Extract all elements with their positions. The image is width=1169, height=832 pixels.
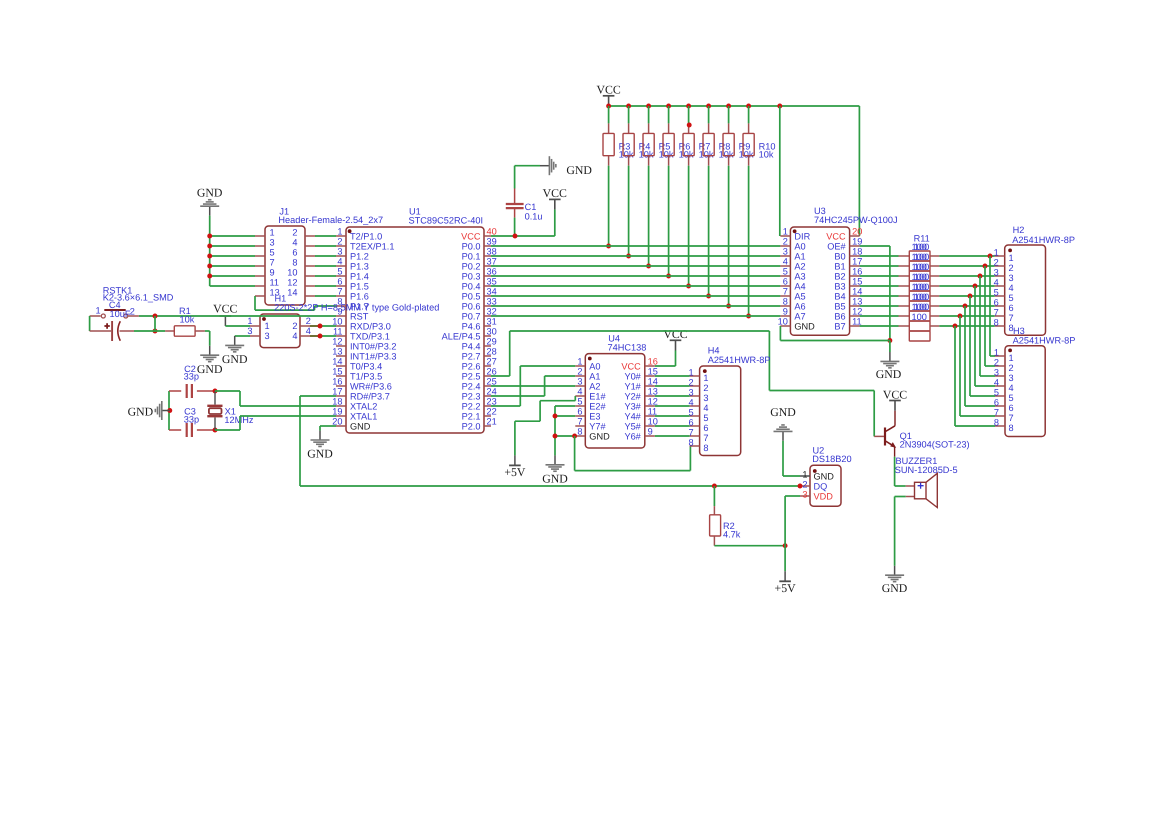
svg-text:P2.7: P2.7 [462,351,481,361]
svg-text:11: 11 [270,278,280,288]
svg-text:B3: B3 [834,281,845,291]
svg-text:A1: A1 [794,251,805,261]
svg-text:8: 8 [783,297,788,307]
svg-text:10k: 10k [739,149,754,159]
svg-text:XTAL1: XTAL1 [350,411,377,421]
svg-text:P0.4: P0.4 [462,281,481,291]
svg-text:13: 13 [332,347,342,357]
svg-text:10k: 10k [659,149,674,159]
svg-text:2: 2 [577,367,582,377]
svg-text:12: 12 [332,337,342,347]
svg-text:11: 11 [333,327,343,337]
svg-text:14: 14 [852,287,862,297]
svg-text:RD#/P3.7: RD#/P3.7 [350,391,390,401]
svg-text:10k: 10k [180,315,195,325]
svg-text:3: 3 [994,268,999,278]
svg-text:H4: H4 [708,346,720,356]
svg-text:12: 12 [287,278,297,288]
svg-text:GND: GND [128,405,154,419]
svg-text:P4.4: P4.4 [462,341,481,351]
svg-text:5: 5 [577,397,582,407]
svg-text:5: 5 [994,288,999,298]
svg-text:Y6#: Y6# [624,431,641,441]
svg-text:RXD/P3.0: RXD/P3.0 [350,321,391,331]
svg-text:VCC: VCC [596,83,620,97]
svg-text:26: 26 [487,367,497,377]
svg-text:25: 25 [487,377,497,387]
svg-text:SUN-12085D-5: SUN-12085D-5 [895,465,958,475]
svg-text:37: 37 [487,257,497,267]
svg-text:10k: 10k [719,149,734,159]
svg-text:VCC: VCC [663,327,687,341]
svg-text:1: 1 [337,227,342,237]
svg-text:18: 18 [852,247,862,257]
svg-text:A1: A1 [589,371,600,381]
svg-text:8: 8 [688,438,693,448]
svg-text:P1.2: P1.2 [350,251,369,261]
svg-text:2: 2 [994,258,999,268]
svg-text:14: 14 [332,357,342,367]
svg-text:VCC: VCC [461,231,481,241]
svg-text:9: 9 [783,307,788,317]
svg-text:Y5#: Y5# [624,421,641,431]
svg-text:+5V: +5V [775,581,797,595]
svg-text:T2EX/P1.1: T2EX/P1.1 [350,241,394,251]
svg-text:Y2#: Y2# [624,391,641,401]
svg-text:A7: A7 [794,311,805,321]
svg-text:P2.0: P2.0 [462,421,481,431]
svg-text:10k: 10k [759,149,774,159]
svg-text:31: 31 [487,317,497,327]
svg-text:6: 6 [703,423,708,433]
svg-text:Y3#: Y3# [624,401,641,411]
svg-text:3: 3 [337,247,342,257]
svg-text:1: 1 [1009,353,1014,363]
svg-text:5: 5 [1009,393,1014,403]
svg-text:A0: A0 [794,241,805,251]
svg-text:16: 16 [332,377,342,387]
svg-text:33: 33 [487,297,497,307]
svg-text:3: 3 [994,368,999,378]
svg-text:100: 100 [914,252,929,262]
svg-text:33p: 33p [184,414,199,424]
svg-text:100: 100 [912,312,927,322]
svg-text:GND: GND [307,447,333,461]
svg-text:39: 39 [487,237,497,247]
svg-text:7: 7 [1009,313,1014,323]
svg-text:7: 7 [994,308,999,318]
svg-text:3: 3 [270,238,275,248]
svg-text:7: 7 [994,408,999,418]
svg-text:22: 22 [487,407,497,417]
svg-text:100: 100 [914,272,929,282]
svg-text:8: 8 [1009,423,1014,433]
svg-text:A2: A2 [589,381,600,391]
svg-text:2N3904(SOT-23): 2N3904(SOT-23) [900,440,970,450]
svg-text:1: 1 [994,248,999,258]
svg-text:P0.5: P0.5 [462,291,481,301]
svg-text:TXD/P3.1: TXD/P3.1 [350,331,390,341]
svg-text:34: 34 [487,287,497,297]
svg-text:10: 10 [778,317,788,327]
svg-text:P0.0: P0.0 [462,241,481,251]
svg-text:GND: GND [814,471,835,481]
svg-text:6: 6 [337,277,342,287]
svg-text:GND: GND [350,421,371,431]
svg-text:E1#: E1# [589,391,606,401]
svg-text:6: 6 [577,407,582,417]
svg-text:1: 1 [247,316,252,326]
svg-text:10k: 10k [679,149,694,159]
svg-text:3: 3 [783,247,788,257]
svg-text:GND: GND [589,431,610,441]
svg-text:6: 6 [292,248,297,258]
svg-text:6: 6 [1009,403,1014,413]
svg-text:10k: 10k [639,149,654,159]
svg-text:9: 9 [270,268,275,278]
svg-text:1: 1 [265,321,270,331]
svg-text:11: 11 [852,317,862,327]
svg-text:A2541HWR-8P: A2541HWR-8P [1012,235,1075,245]
svg-text:B2: B2 [834,271,845,281]
svg-text:10: 10 [287,268,297,278]
svg-text:8: 8 [994,318,999,328]
svg-text:100: 100 [914,302,929,312]
svg-text:P2.4: P2.4 [462,381,481,391]
svg-text:GND: GND [542,471,568,485]
svg-text:13: 13 [648,387,658,397]
svg-text:B5: B5 [834,301,845,311]
svg-text:4: 4 [994,278,999,288]
svg-text:5: 5 [994,388,999,398]
svg-text:DQ: DQ [814,481,828,491]
svg-text:2: 2 [1009,363,1014,373]
svg-text:100: 100 [914,292,929,302]
svg-text:INT0#/P3.2: INT0#/P3.2 [350,341,396,351]
svg-text:17: 17 [852,257,862,267]
svg-text:14: 14 [648,377,658,387]
svg-text:12: 12 [648,397,658,407]
svg-text:DS18B20: DS18B20 [812,454,851,464]
svg-text:E3: E3 [589,411,600,421]
svg-text:8: 8 [292,258,297,268]
svg-text:6: 6 [783,277,788,287]
svg-text:1: 1 [270,228,275,238]
svg-text:13: 13 [852,297,862,307]
svg-text:40: 40 [487,227,497,237]
svg-text:T0/P3.4: T0/P3.4 [350,361,382,371]
svg-text:P2.1: P2.1 [462,411,481,421]
svg-text:4: 4 [337,257,342,267]
svg-text:2: 2 [994,358,999,368]
svg-text:B4: B4 [834,291,845,301]
svg-text:3: 3 [577,377,582,387]
svg-text:11: 11 [648,407,658,417]
svg-text:6: 6 [1009,303,1014,313]
svg-text:10: 10 [332,317,342,327]
svg-text:B1: B1 [834,261,845,271]
svg-text:100: 100 [914,242,929,252]
svg-text:2: 2 [337,237,342,247]
svg-text:GND: GND [876,367,902,381]
svg-text:27: 27 [487,357,497,367]
svg-text:RST: RST [350,311,369,321]
svg-text:Y0#: Y0# [624,371,641,381]
svg-text:4: 4 [703,403,708,413]
svg-text:GND: GND [197,362,223,376]
svg-text:1: 1 [994,348,999,358]
svg-text:P2.2: P2.2 [462,401,481,411]
svg-text:1: 1 [1009,253,1014,263]
svg-text:32: 32 [487,307,497,317]
svg-text:1: 1 [802,470,807,480]
svg-text:35: 35 [487,277,497,287]
svg-text:P0.6: P0.6 [462,301,481,311]
svg-text:3: 3 [703,393,708,403]
svg-text:3: 3 [802,490,807,500]
svg-text:ALE/P4.5: ALE/P4.5 [442,331,481,341]
svg-text:20: 20 [332,417,342,427]
svg-text:220S-2*2P H=8.5MM Y type Gold-: 220S-2*2P H=8.5MM Y type Gold-plated [274,302,439,312]
svg-text:36: 36 [487,267,497,277]
svg-text:15: 15 [648,367,658,377]
svg-text:3: 3 [1009,273,1014,283]
svg-text:XTAL2: XTAL2 [350,401,377,411]
svg-text:GND: GND [566,163,592,177]
svg-text:P1.5: P1.5 [350,281,369,291]
svg-text:2: 2 [306,316,311,326]
svg-text:A5: A5 [794,291,805,301]
svg-text:T2/P1.0: T2/P1.0 [350,231,382,241]
svg-text:OE#: OE# [827,241,846,251]
svg-text:5: 5 [337,267,342,277]
svg-text:7: 7 [783,287,788,297]
svg-text:VCC: VCC [543,186,567,200]
svg-text:15: 15 [332,367,342,377]
svg-text:7: 7 [337,287,342,297]
svg-text:P4.6: P4.6 [462,321,481,331]
svg-text:4: 4 [292,238,297,248]
svg-text:INT1#/P3.3: INT1#/P3.3 [350,351,396,361]
svg-text:WR#/P3.6: WR#/P3.6 [350,381,392,391]
svg-text:P2.6: P2.6 [462,361,481,371]
svg-text:H2: H2 [1013,225,1025,235]
svg-text:8: 8 [577,427,582,437]
svg-text:B6: B6 [834,311,845,321]
svg-text:15: 15 [852,277,862,287]
svg-text:17: 17 [332,387,342,397]
svg-text:1: 1 [577,357,582,367]
svg-text:DIR: DIR [794,231,810,241]
svg-text:18: 18 [332,397,342,407]
svg-text:2: 2 [783,237,788,247]
svg-text:23: 23 [487,397,497,407]
svg-text:A3: A3 [794,271,805,281]
svg-text:6: 6 [994,298,999,308]
svg-text:5: 5 [270,248,275,258]
svg-text:A2: A2 [794,261,805,271]
svg-text:14: 14 [287,288,297,298]
svg-text:Y7#: Y7# [589,421,606,431]
svg-text:P0.3: P0.3 [462,271,481,281]
svg-text:10k: 10k [619,149,634,159]
svg-text:P2.3: P2.3 [462,391,481,401]
svg-text:GND: GND [222,352,248,366]
svg-text:P0.2: P0.2 [462,261,481,271]
svg-text:2: 2 [703,383,708,393]
svg-text:0.1u: 0.1u [525,211,543,221]
svg-text:2: 2 [130,306,135,316]
svg-text:4: 4 [1009,283,1014,293]
svg-text:T1/P3.5: T1/P3.5 [350,371,382,381]
svg-text:A2541HWR-8P: A2541HWR-8P [1013,335,1076,345]
svg-text:2: 2 [802,480,807,490]
svg-text:GND: GND [197,185,223,199]
svg-text:4: 4 [292,331,297,341]
svg-text:GND: GND [882,581,908,595]
svg-text:100: 100 [914,262,929,272]
svg-text:1: 1 [783,227,788,237]
svg-text:10k: 10k [699,149,714,159]
svg-text:1: 1 [96,306,101,316]
svg-text:A6: A6 [794,301,805,311]
svg-text:28: 28 [487,347,497,357]
svg-text:74HC245PW-Q100J: 74HC245PW-Q100J [814,215,898,225]
svg-text:4: 4 [1009,383,1014,393]
svg-text:10uF: 10uF [110,309,131,319]
svg-text:A4: A4 [794,281,805,291]
svg-text:A2541HWR-8P: A2541HWR-8P [708,355,771,365]
svg-text:6: 6 [994,398,999,408]
svg-text:16: 16 [648,357,658,367]
svg-text:4: 4 [306,326,311,336]
svg-text:9: 9 [648,427,653,437]
svg-text:STC89C52RC-40I: STC89C52RC-40I [409,216,484,226]
svg-text:Header-Female-2.54_2x7: Header-Female-2.54_2x7 [278,215,383,225]
svg-text:5: 5 [783,267,788,277]
svg-text:GND: GND [770,405,796,419]
svg-text:GND: GND [794,321,815,331]
svg-text:VDD: VDD [814,491,834,501]
svg-text:7: 7 [577,417,582,427]
svg-text:8: 8 [703,443,708,453]
svg-text:5: 5 [1009,293,1014,303]
svg-text:P1.3: P1.3 [350,261,369,271]
svg-text:4: 4 [577,387,582,397]
svg-text:24: 24 [487,387,497,397]
svg-text:4: 4 [994,378,999,388]
svg-text:B7: B7 [834,321,845,331]
svg-text:A0: A0 [589,361,600,371]
svg-text:1: 1 [703,373,708,383]
svg-text:19: 19 [852,237,862,247]
svg-text:3: 3 [247,326,252,336]
svg-text:P1.6: P1.6 [350,291,369,301]
svg-text:33p: 33p [184,372,199,382]
svg-text:4.7k: 4.7k [723,530,741,540]
svg-text:20: 20 [852,227,862,237]
svg-text:2: 2 [292,321,297,331]
svg-text:100: 100 [914,282,929,292]
svg-text:B0: B0 [834,251,845,261]
svg-text:E2#: E2# [589,401,606,411]
svg-text:7: 7 [703,433,708,443]
svg-text:Y1#: Y1# [624,381,641,391]
svg-text:3: 3 [1009,373,1014,383]
svg-text:VCC: VCC [883,387,907,401]
svg-text:38: 38 [487,247,497,257]
svg-text:5: 5 [703,413,708,423]
svg-text:16: 16 [852,267,862,277]
svg-text:VCC: VCC [826,231,846,241]
svg-text:Y4#: Y4# [624,411,641,421]
svg-text:VCC: VCC [621,361,641,371]
svg-text:30: 30 [487,327,497,337]
svg-text:4: 4 [783,257,788,267]
svg-text:29: 29 [487,337,497,347]
svg-text:12: 12 [852,307,862,317]
svg-text:7: 7 [270,258,275,268]
svg-text:P1.4: P1.4 [350,271,369,281]
svg-text:10: 10 [648,417,658,427]
svg-text:7: 7 [1009,413,1014,423]
svg-text:P0.1: P0.1 [462,251,481,261]
svg-text:74HC138: 74HC138 [608,343,647,353]
svg-text:3: 3 [265,331,270,341]
svg-text:8: 8 [994,418,999,428]
svg-text:19: 19 [332,407,342,417]
svg-text:2: 2 [292,228,297,238]
svg-text:P0.7: P0.7 [462,311,481,321]
svg-text:+5V: +5V [504,465,526,479]
svg-text:P2.5: P2.5 [462,371,481,381]
svg-text:VCC: VCC [213,301,237,315]
svg-text:2: 2 [1009,263,1014,273]
svg-text:21: 21 [487,417,497,427]
